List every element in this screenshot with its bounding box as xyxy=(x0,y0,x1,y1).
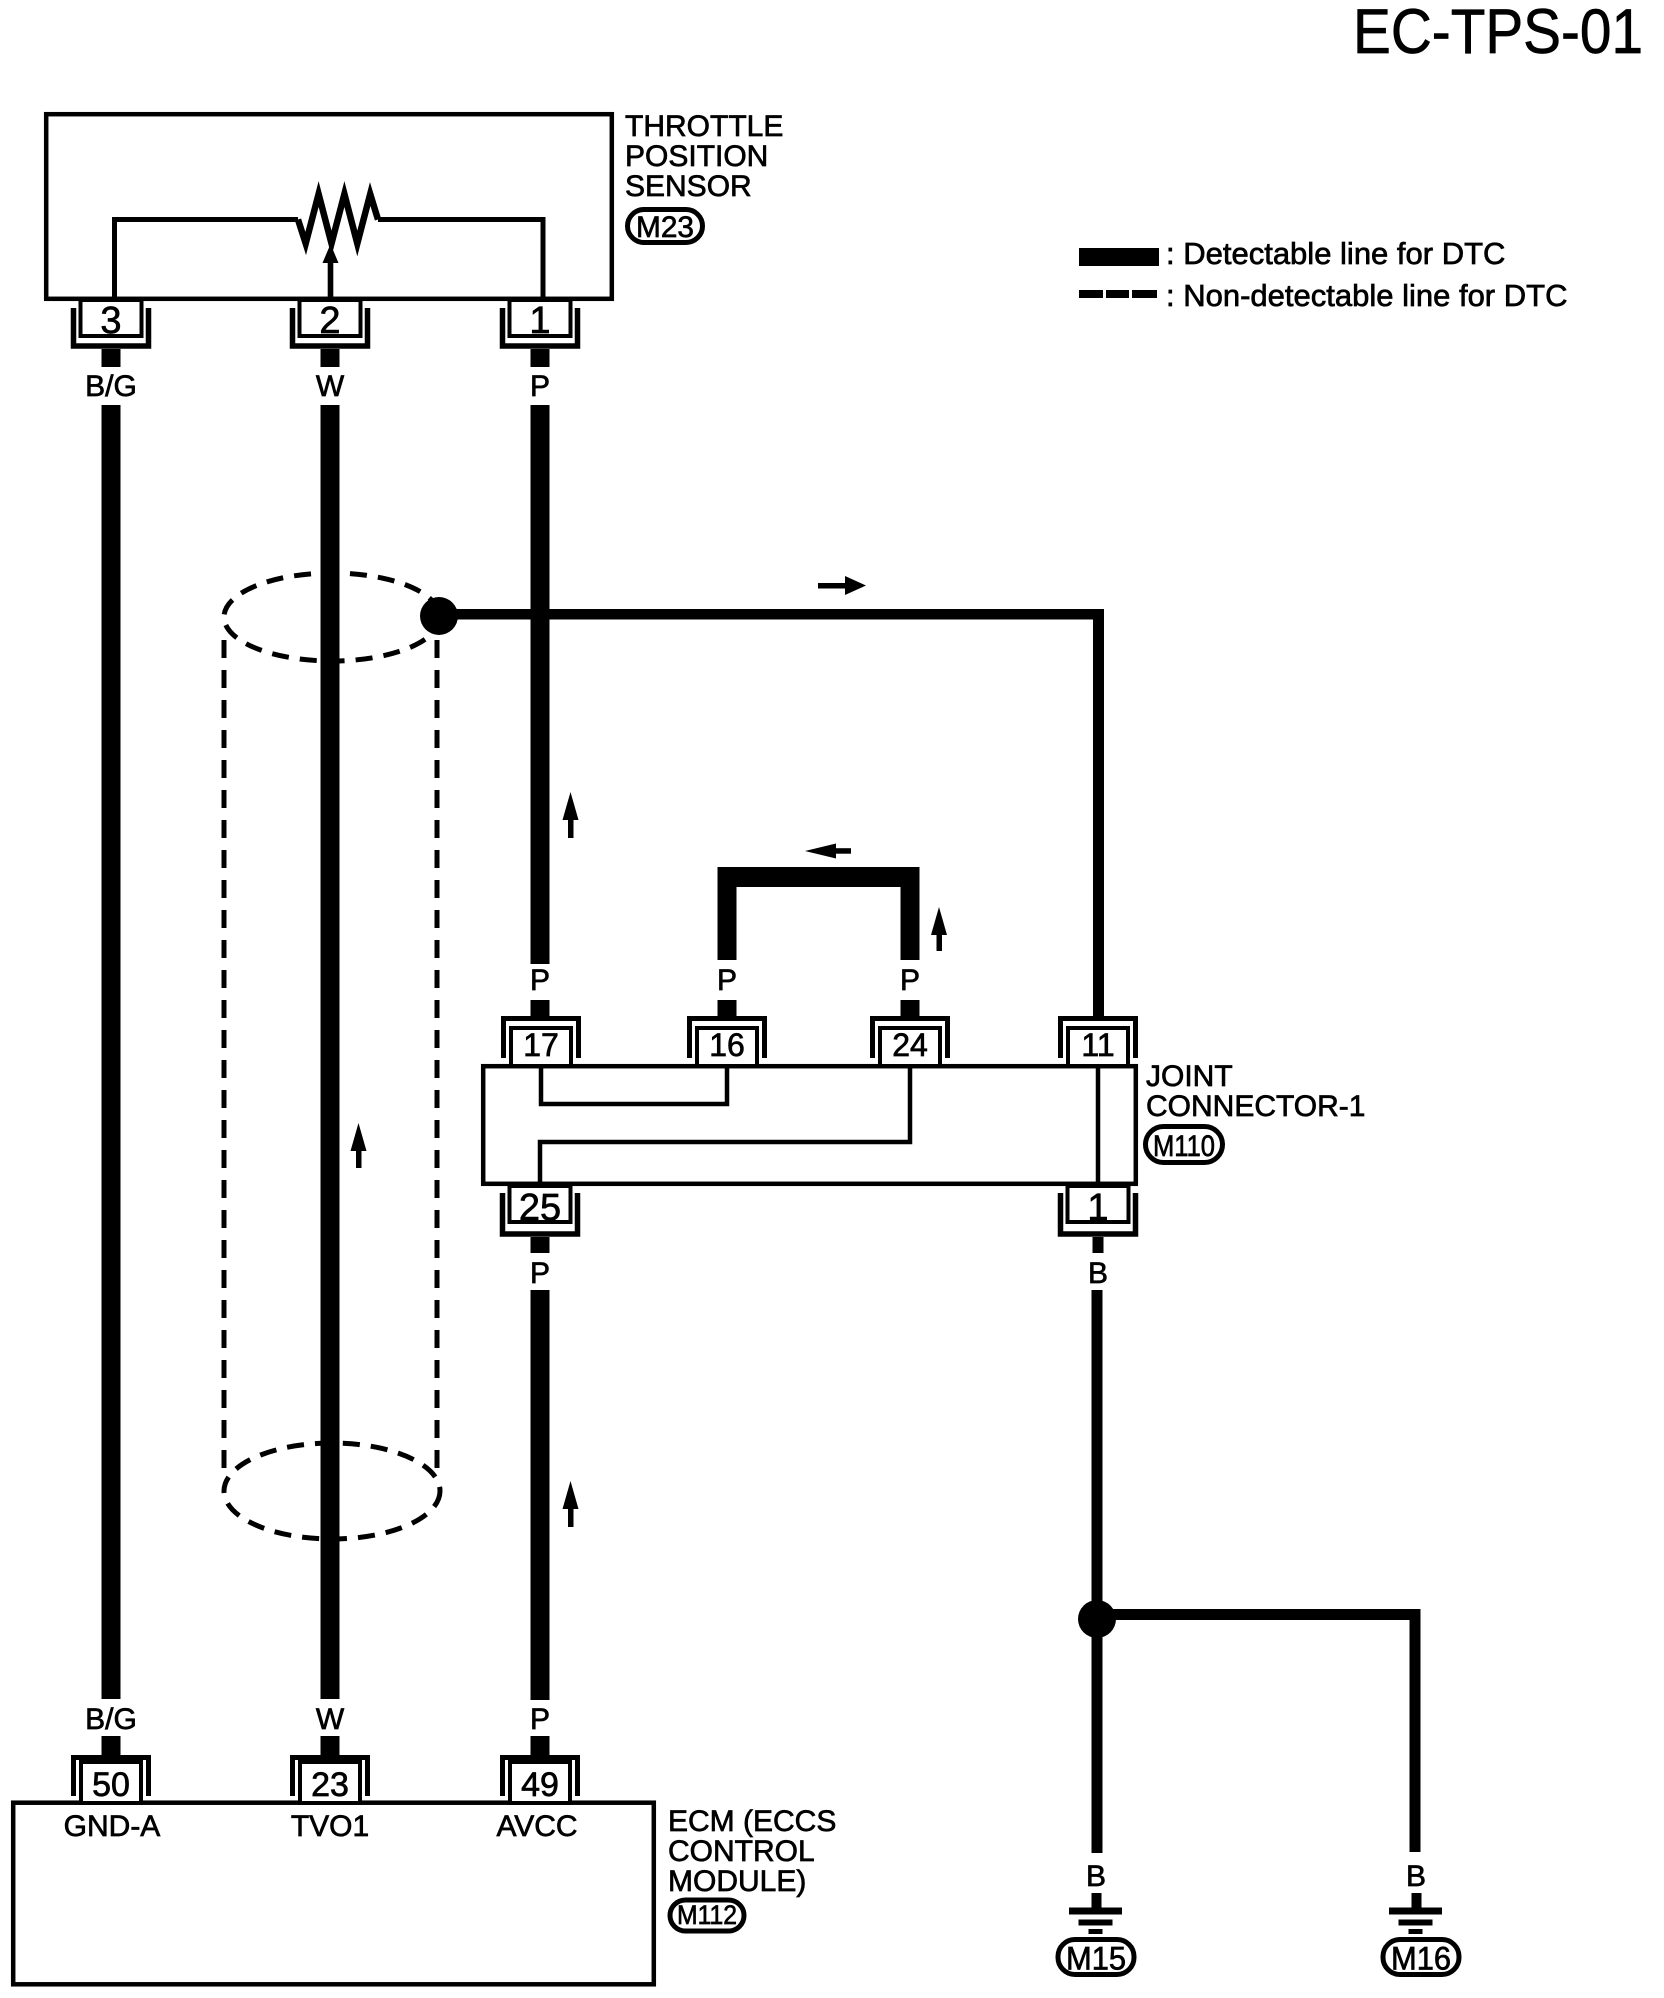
svg-text:CONNECTOR-1: CONNECTOR-1 xyxy=(1146,1090,1365,1123)
svg-text:P: P xyxy=(900,964,920,997)
svg-text:50: 50 xyxy=(92,1766,130,1804)
svg-text:B/G: B/G xyxy=(85,370,137,403)
svg-text:: Non-detectable line for DTC: : Non-detectable line for DTC xyxy=(1166,278,1567,313)
svg-text:P: P xyxy=(530,370,550,403)
svg-text:B: B xyxy=(1086,1860,1106,1893)
svg-text:B: B xyxy=(1406,1860,1426,1893)
svg-text:W: W xyxy=(316,370,345,403)
svg-text:16: 16 xyxy=(709,1027,745,1063)
svg-text:M110: M110 xyxy=(1153,1130,1215,1163)
svg-text:P: P xyxy=(530,964,550,997)
svg-text:: Detectable line for DTC: : Detectable line for DTC xyxy=(1166,236,1505,271)
svg-text:W: W xyxy=(316,1703,345,1736)
svg-text:JOINT: JOINT xyxy=(1146,1060,1233,1093)
svg-text:GND-A: GND-A xyxy=(64,1810,161,1843)
svg-text:ECM (ECCS: ECM (ECCS xyxy=(668,1805,836,1838)
svg-text:SENSOR: SENSOR xyxy=(625,170,752,203)
svg-text:M16: M16 xyxy=(1391,1941,1451,1977)
svg-text:TVO1: TVO1 xyxy=(291,1810,369,1843)
svg-text:1: 1 xyxy=(529,300,550,342)
svg-text:49: 49 xyxy=(521,1766,559,1804)
svg-text:EC-TPS-01: EC-TPS-01 xyxy=(1353,0,1643,67)
svg-text:1: 1 xyxy=(1087,1187,1108,1229)
svg-text:CONTROL: CONTROL xyxy=(668,1835,815,1868)
svg-text:M15: M15 xyxy=(1066,1941,1126,1977)
svg-text:AVCC: AVCC xyxy=(496,1810,577,1843)
svg-text:17: 17 xyxy=(523,1027,559,1063)
svg-text:25: 25 xyxy=(519,1187,561,1229)
svg-text:23: 23 xyxy=(311,1766,349,1804)
svg-text:B/G: B/G xyxy=(85,1703,137,1736)
svg-text:24: 24 xyxy=(892,1027,928,1063)
svg-text:M23: M23 xyxy=(636,211,694,244)
svg-text:P: P xyxy=(530,1257,550,1290)
svg-text:P: P xyxy=(717,964,737,997)
svg-text:M112: M112 xyxy=(677,1900,737,1930)
svg-text:THROTTLE: THROTTLE xyxy=(625,110,783,143)
svg-text:B: B xyxy=(1088,1257,1108,1290)
svg-text:11: 11 xyxy=(1081,1027,1114,1063)
svg-text:2: 2 xyxy=(319,300,340,342)
svg-text:3: 3 xyxy=(100,300,121,342)
svg-text:POSITION: POSITION xyxy=(625,140,768,173)
svg-text:MODULE): MODULE) xyxy=(668,1865,806,1898)
svg-text:P: P xyxy=(530,1703,550,1736)
